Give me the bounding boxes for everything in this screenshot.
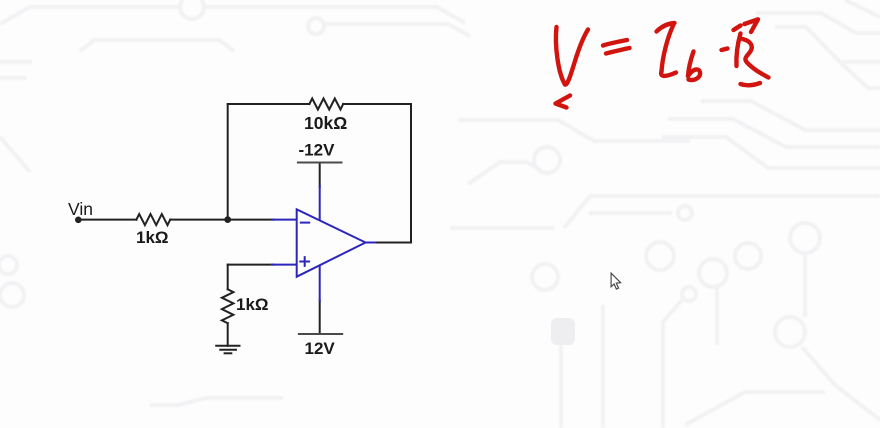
R bowl and leg — [743, 39, 769, 78]
equals bottom — [606, 48, 630, 54]
letter I bottom hook — [661, 72, 676, 76]
solid pad — [551, 318, 575, 345]
op-amp minus sign — [301, 222, 309, 224]
R arrow dash — [734, 26, 741, 31]
op-amp plus sign — [300, 257, 309, 266]
blue power wire top — [319, 186, 321, 221]
equals top — [603, 40, 627, 46]
mouse cursor — [611, 273, 621, 289]
wire junction to feedback top — [227, 104, 229, 220]
blue output stub — [366, 242, 376, 244]
svg-text:12V: 12V — [305, 339, 336, 358]
resistor R1 1k zigzag — [136, 214, 170, 225]
svg-text:-12V: -12V — [299, 141, 336, 160]
svg-text:10kΩ: 10kΩ — [304, 113, 347, 133]
blue op-amp group — [272, 186, 375, 302]
blue power wire bottom — [319, 265, 321, 302]
feedback right vertical — [410, 104, 412, 243]
multiplication dot — [722, 49, 728, 51]
letter I stem — [662, 25, 674, 72]
blue stub inverting input — [272, 219, 297, 221]
resistor R3 1k vertical zigzag — [222, 289, 234, 323]
subscript b stem — [688, 52, 694, 77]
R bottom dash — [741, 83, 761, 85]
letter I top bar — [657, 23, 675, 32]
tick under V — [556, 96, 571, 108]
wire R3 to ground — [227, 323, 229, 346]
resistor R2 10k zigzag — [309, 99, 343, 110]
wire noninverting horizontal — [228, 264, 274, 266]
letter V left stroke — [556, 27, 565, 85]
12V supply bar — [298, 333, 343, 335]
svg-text:Vin: Vin — [68, 199, 93, 219]
node Vin terminal wire — [78, 219, 136, 221]
junction dot — [224, 216, 231, 223]
op-amp U1 triangle — [297, 209, 366, 276]
supply 12V vertical black part — [319, 301, 321, 335]
supply -12V vertical black part — [319, 163, 321, 188]
Vin terminal dot — [75, 217, 82, 224]
feedback top wire left — [228, 103, 310, 105]
subscript b loop — [688, 69, 700, 80]
blue stub noninverting input — [272, 264, 297, 266]
svg-text:1kΩ: 1kΩ — [136, 228, 169, 247]
R stem — [736, 34, 740, 67]
feedback top wire right — [343, 103, 411, 105]
supply bars (slightly gray) — [297, 163, 343, 335]
wire to R3 — [227, 265, 229, 290]
wire R1 to junction — [170, 219, 274, 221]
-12V supply bar — [297, 162, 343, 164]
output wire — [374, 242, 411, 244]
ground bars — [216, 345, 239, 347]
svg-text:1kΩ: 1kΩ — [236, 295, 269, 314]
labels — [68, 113, 347, 358]
R arrow head — [745, 19, 759, 32]
letter V right stroke — [565, 30, 588, 85]
